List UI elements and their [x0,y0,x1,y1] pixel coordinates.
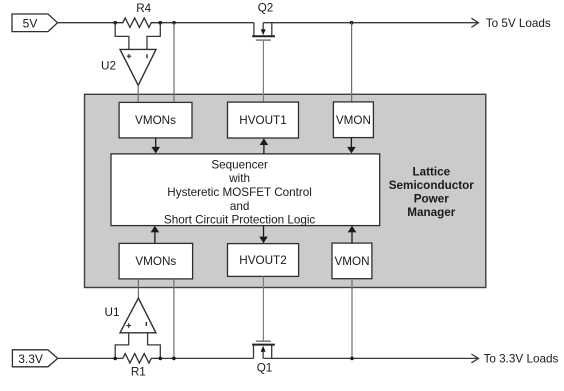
input tag 3.3V [12,350,57,367]
svg-text:HVOUT2: HVOUT2 [239,254,286,267]
wire 3.3V rail right segment [263,357,478,359]
block HVOUT1 [228,102,299,138]
svg-text:VMONs: VMONs [135,114,176,127]
svg-text:with: with [228,172,250,185]
resistor R1 [115,352,160,378]
svg-text:Semiconductor: Semiconductor [389,179,475,192]
svg-text:R4: R4 [136,2,151,15]
label To 5V Loads [486,17,551,30]
arrowhead to 3.3V loads [471,354,478,363]
wire U1 - input to R1 right [148,333,161,359]
wire 5V rail right segment [263,22,478,24]
svg-text:R1: R1 [131,365,146,378]
arrow Sequencer to HVOUT2 [259,226,268,244]
block VMONs top [119,102,192,137]
arrow VMON top to Sequencer [347,138,356,154]
svg-text:and: and [230,200,250,213]
wire R4 right sense to U2 - input [147,23,160,50]
svg-text:Hysteretic MOSFET Control: Hysteretic MOSFET Control [167,186,312,199]
svg-text:Short Circuit Protection Logic: Short Circuit Protection Logic [164,214,316,227]
svg-text:HVOUT1: HVOUT1 [239,114,286,127]
block HVOUT2 [228,244,299,277]
wire 3.3V rail left segment [58,357,254,359]
label To 3.3V Loads [484,353,559,366]
wire R4 left sense to U2 + input [115,23,129,50]
node right of R4 (junction dot) [159,21,163,25]
svg-text:Lattice: Lattice [412,166,450,179]
block Sequencer [111,154,380,227]
svg-text:Sequencer: Sequencer [211,159,268,172]
node right of R1 (junction dot) [159,357,163,361]
block VMON top [333,102,373,138]
input tag 5V [12,14,58,32]
node left of R1 (junction dot) [113,357,117,361]
arrow Sequencer to HVOUT1 [260,138,269,154]
svg-text:3.3V: 3.3V [18,352,43,366]
wire 5V rail left segment [58,22,254,24]
svg-text:U1: U1 [105,306,120,319]
svg-text:VMONs: VMONs [135,255,176,268]
transistor Q2 [252,2,275,41]
svg-text:U2: U2 [101,60,116,73]
arrow VMON bottom to Sequencer [348,226,357,243]
wire VMONs bottom sense tap [173,279,175,359]
wire HVOUT2 to Q1 gate [262,276,264,341]
wire Q2 gate to HVOUT1 [262,40,264,102]
svg-text:VMON: VMON [336,114,371,127]
wire U2 output to VMONs [137,85,139,102]
svg-text:Manager: Manager [407,206,456,219]
op-amp U2 [101,49,156,85]
svg-text:Power: Power [414,193,450,206]
node left of R4 (junction dot) [113,21,117,25]
resistor R4 [115,2,160,29]
label Lattice Semiconductor Power Manager [389,166,475,220]
svg-text:Q2: Q2 [258,2,274,15]
op-amp U1 [105,298,156,333]
arrowhead to 5V loads [471,18,478,27]
power manager gray box [85,94,486,287]
arrow VMONs top to Sequencer [151,138,160,154]
svg-text:5V: 5V [23,16,38,30]
wire VMONs bottom to U1 output [137,279,139,298]
svg-text:VMON: VMON [334,255,369,268]
node top right (junction dot) [350,21,354,25]
wire VMON bottom down to 3.3V rail [351,279,353,359]
svg-text:Q1: Q1 [257,361,273,374]
block VMON bottom [332,243,372,279]
svg-text:To 5V Loads: To 5V Loads [486,17,551,30]
node sense tap top (junction dot) [172,21,176,25]
block VMONs bottom [119,243,193,279]
wire sense tap down to VMONs [173,23,175,103]
transistor Q1 [252,341,275,374]
wire top right node down to VMON [351,23,353,102]
wire U1 + input to R1 left [115,333,129,359]
arrow VMONs bottom to Sequencer [151,226,160,244]
node sense tap bottom (junction dot) [172,357,176,361]
svg-text:To 3.3V Loads: To 3.3V Loads [484,353,559,366]
node bottom right (junction dot) [350,357,354,361]
